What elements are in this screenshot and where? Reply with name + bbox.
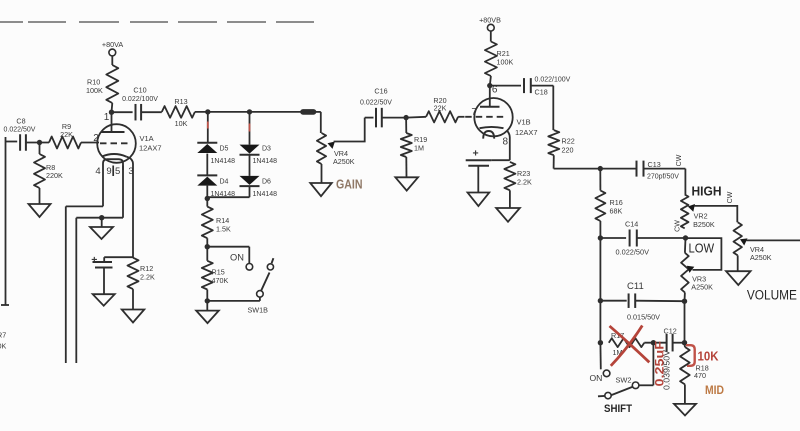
- wire supply to R21: [490, 31, 492, 41]
- svg-text:C14: C14: [625, 220, 638, 229]
- svg-text:12AX7: 12AX7: [139, 144, 162, 153]
- resistor R8: [34, 143, 45, 205]
- ground R23: [496, 208, 520, 222]
- potentiometer VR3: [681, 238, 689, 293]
- diode D3: [240, 145, 260, 155]
- label MID: [705, 385, 724, 397]
- label D5: [211, 146, 236, 166]
- wire R10 to plate node: [111, 103, 114, 112]
- wire branch1 lead: [207, 112, 209, 143]
- wire bus R16 down: [599, 238, 601, 301]
- capacitor C8: [20, 134, 26, 151]
- ground R15: [196, 311, 219, 324]
- node SW2 tap: [651, 340, 656, 345]
- svg-text:1N4148: 1N4148: [253, 158, 278, 165]
- label C10: [133, 86, 146, 95]
- resistor R12: [128, 258, 139, 289]
- label R12: [140, 264, 155, 282]
- ground C9: [93, 294, 115, 306]
- svg-text:CW: CW: [675, 220, 682, 232]
- svg-text:SHIFT: SHIFT: [604, 403, 632, 415]
- ground R19: [395, 177, 418, 190]
- ground heater: [90, 227, 113, 239]
- svg-text:LOW: LOW: [689, 240, 715, 255]
- resistor R18: [680, 343, 690, 385]
- wire wiper to C16: [365, 117, 374, 119]
- wire R16 to C14 node: [599, 221, 601, 238]
- ground R18: [674, 404, 696, 416]
- wiper VR4 volume: [740, 238, 800, 245]
- capacitor C13: [637, 161, 644, 177]
- label C10 value: [122, 96, 158, 103]
- tube V1A cathode: [102, 154, 127, 157]
- svg-text:10K: 10K: [175, 119, 188, 128]
- svg-text:22K: 22K: [60, 130, 73, 139]
- label D3: [253, 146, 278, 166]
- wire R14 to R15: [206, 238, 208, 261]
- svg-text:0.015/50V: 0.015/50V: [627, 315, 660, 322]
- power +80VA: [102, 40, 123, 56]
- svg-text:A250K: A250K: [691, 282, 713, 291]
- wire C8 to R9: [26, 142, 49, 144]
- wire C9 to ground: [103, 268, 105, 295]
- svg-text:C12: C12: [664, 327, 677, 336]
- label R17: [611, 331, 624, 357]
- wire junction to ON contact: [207, 247, 249, 264]
- node tone bus tap: [598, 166, 603, 171]
- capacitor C16: [376, 108, 382, 128]
- wire C11 left: [600, 300, 626, 302]
- wire C11 right: [635, 300, 684, 303]
- wire R20 to V1B grid: [458, 116, 464, 118]
- label pins 4 9 5 3: [95, 166, 133, 177]
- wire R13 to diode bus: [195, 111, 315, 113]
- svg-text:0.022/100V: 0.022/100V: [122, 96, 158, 103]
- wire bus down to R17: [599, 301, 601, 343]
- red mark branch2: [249, 124, 251, 132]
- svg-text:0.022/50V: 0.022/50V: [360, 100, 392, 107]
- svg-text:220K: 220K: [0, 342, 6, 351]
- wire pin4 heater: [66, 206, 103, 363]
- diode D6: [240, 176, 260, 186]
- label mod 0.25uF: [652, 341, 666, 387]
- label pin 2: [93, 133, 99, 144]
- capacitor C18: [524, 78, 531, 93]
- label GAIN: [336, 178, 363, 192]
- label R18: [694, 364, 709, 381]
- ground VR4 gain: [310, 183, 332, 196]
- tube V1A envelope: [97, 124, 136, 163]
- node heater ground: [99, 215, 104, 220]
- node diode branch 2: [247, 109, 252, 114]
- svg-text:C10: C10: [133, 86, 146, 95]
- ground R12: [122, 310, 145, 323]
- switch SW2 lever: [598, 387, 633, 399]
- node R18 top: [682, 340, 687, 345]
- wire pin8 down: [507, 130, 510, 160]
- red mark branch1: [207, 122, 209, 129]
- node R15 bottom: [205, 298, 210, 303]
- svg-text:220K: 220K: [46, 171, 63, 180]
- label VR3: [691, 275, 713, 292]
- svg-text:1: 1: [104, 112, 110, 123]
- label pin 8: [503, 137, 509, 148]
- label LOW: [689, 240, 715, 255]
- label C8: [16, 117, 25, 126]
- wire R15 to ground: [206, 290, 208, 311]
- svg-text:V1A: V1A: [140, 134, 154, 143]
- capacitor C9 plus: [91, 254, 97, 266]
- label pin 6: [492, 85, 498, 96]
- svg-text:0.022/100V: 0.022/100V: [535, 77, 571, 84]
- wire VR3 bus to R18 node: [684, 301, 686, 343]
- capacitor C11: [629, 293, 636, 308]
- wire pin5 heater: [76, 218, 123, 363]
- label R23: [517, 169, 532, 187]
- tube V1B envelope: [474, 98, 512, 136]
- svg-text:0.039/50V: 0.039/50V: [663, 349, 672, 390]
- svg-text:R22: R22: [562, 137, 575, 146]
- label C18: [535, 88, 548, 97]
- red X over R17: [610, 326, 650, 366]
- resistor R16: [595, 169, 605, 221]
- label C11: [627, 281, 644, 292]
- svg-text:9: 9: [106, 166, 111, 177]
- label VR4 volume: [750, 245, 772, 262]
- wire C18 to R22: [531, 86, 554, 131]
- node R17 left: [598, 340, 603, 345]
- svg-text:D5: D5: [220, 146, 229, 153]
- node diode bottom: [205, 196, 210, 201]
- svg-text:VOLUME: VOLUME: [747, 288, 797, 303]
- label R21: [497, 49, 514, 67]
- svg-text:R13: R13: [174, 97, 187, 106]
- resistor R13: [162, 106, 195, 118]
- label C12: [664, 327, 677, 336]
- svg-text:1N4148: 1N4148: [211, 158, 236, 165]
- capacitor C10: [136, 104, 142, 121]
- ground C22: [468, 193, 490, 207]
- node C11 right: [682, 299, 687, 304]
- wire R9 to V1A grid: [81, 142, 99, 144]
- svg-text:SW2: SW2: [616, 376, 632, 385]
- resistor R19: [401, 118, 412, 157]
- resistor R10: [106, 65, 118, 103]
- resistor R14: [202, 207, 213, 239]
- label SHIFT: [604, 403, 632, 415]
- wire to R14: [206, 197, 208, 206]
- wiper VR2: [688, 204, 738, 222]
- label C12 value rotated: [663, 349, 672, 390]
- svg-text:2.2K: 2.2K: [517, 178, 532, 187]
- red bracket 10K: [686, 345, 695, 366]
- svg-text:0.022/50V: 0.022/50V: [616, 250, 650, 257]
- wire node to C10: [112, 111, 133, 113]
- svg-text:1M: 1M: [414, 144, 424, 153]
- label C16: [374, 87, 387, 96]
- svg-text:+80VB: +80VB: [479, 16, 501, 25]
- node input wire: [1, 137, 17, 305]
- wire R19 to ground: [405, 157, 407, 177]
- capacitor C22 plus: [473, 148, 479, 160]
- tube V1A plate: [101, 112, 125, 132]
- label CW treble bottom: [675, 220, 682, 232]
- wire bead to VR4 gain: [314, 112, 321, 133]
- switch SW2 ON contact: [603, 370, 610, 377]
- wire C12 to R18 node: [673, 342, 685, 344]
- ground R8: [29, 204, 51, 217]
- wire R21 to plate node: [490, 76, 491, 86]
- svg-text:8: 8: [503, 137, 509, 148]
- label C11 value: [627, 315, 660, 322]
- svg-text:22K: 22K: [434, 104, 447, 113]
- svg-text:CW: CW: [676, 154, 683, 166]
- label CW volume riser: [727, 191, 734, 203]
- node C14 tap: [598, 235, 603, 240]
- wire supply to R10: [111, 56, 113, 65]
- tube V1B plate: [480, 86, 500, 107]
- wire VR4 gain to ground: [321, 164, 323, 183]
- tube V1B grid: [465, 116, 506, 118]
- label R14: [216, 216, 231, 234]
- node diode branch 1: [205, 109, 210, 114]
- node plate V1B: [487, 83, 492, 88]
- label C18 value: [535, 77, 571, 84]
- svg-text:+: +: [473, 148, 479, 160]
- node VR2 bottom: [683, 235, 688, 240]
- wiper VR3 loop: [686, 238, 722, 273]
- svg-text:D6: D6: [262, 179, 271, 186]
- switch SW2 common: [632, 382, 639, 389]
- label VR2: [693, 212, 715, 230]
- diode D4: [197, 175, 217, 185]
- wire C14 right: [637, 237, 686, 239]
- label CW treble top: [676, 154, 683, 166]
- resistor R23: [504, 162, 515, 190]
- svg-text:68K: 68K: [610, 207, 623, 216]
- capacitor C9 bypass: [93, 257, 134, 267]
- wiper VR4 gain: [328, 118, 365, 149]
- svg-text:+80VA: +80VA: [102, 40, 123, 49]
- diode D5: [197, 143, 217, 153]
- label mod 10K: [698, 349, 720, 364]
- power +80VB: [479, 16, 501, 32]
- svg-text:C18: C18: [535, 88, 548, 97]
- label R7 clipped: [0, 331, 6, 351]
- svg-text:10K: 10K: [698, 349, 720, 364]
- svg-text:1N4148: 1N4148: [253, 191, 278, 198]
- svg-text:MID: MID: [705, 385, 724, 397]
- label C16 value: [360, 100, 392, 107]
- resistor R9: [49, 137, 81, 149]
- svg-text:A250K: A250K: [750, 253, 772, 262]
- wire D3 to D6: [249, 155, 251, 176]
- wire SW2 drop: [639, 343, 654, 386]
- wire bus to SW2 ON: [599, 343, 601, 370]
- pin 5 tick: [122, 166, 124, 171]
- ground VR4 volume: [726, 271, 751, 285]
- wire C13 to high pot: [644, 169, 686, 195]
- capacitor C12: [667, 334, 673, 352]
- resistor R22: [548, 130, 559, 155]
- label D6: [253, 179, 278, 199]
- wire VR4 to ground: [737, 255, 739, 271]
- resistor R15: [202, 261, 213, 290]
- wire to SW1B common: [207, 297, 260, 301]
- node plate V1A: [109, 110, 114, 115]
- svg-text:100K: 100K: [497, 58, 514, 67]
- wire heater ground stub: [101, 218, 103, 227]
- switch SW1B lever: [261, 258, 274, 291]
- wire dashed boundary line: [0, 21, 314, 23]
- pin 9 stub: [112, 166, 114, 177]
- label HIGH: [692, 184, 722, 198]
- svg-text:12AX7: 12AX7: [515, 128, 538, 137]
- capacitor C14: [630, 230, 637, 247]
- svg-text:0.022/50V: 0.022/50V: [4, 127, 36, 134]
- svg-text:C11: C11: [627, 281, 644, 292]
- wire R17 to C12: [644, 342, 666, 344]
- switch SW1B contact: [246, 264, 253, 271]
- label SW2: [616, 376, 632, 385]
- wire diode bottoms: [207, 185, 249, 198]
- svg-text:HIGH: HIGH: [692, 184, 722, 198]
- potentiometer VR2: [681, 195, 689, 229]
- wire thick bead: [303, 109, 314, 115]
- wire C10 to R13: [141, 111, 162, 113]
- resistor R17: [609, 338, 645, 347]
- wire pin3 cathode: [126, 157, 133, 258]
- svg-text:1.5K: 1.5K: [216, 225, 231, 234]
- potentiometer VR4 volume: [734, 222, 742, 255]
- label R15: [212, 268, 229, 286]
- label R16: [610, 198, 623, 216]
- label R8: [46, 163, 63, 180]
- label ON SW2: [590, 373, 603, 383]
- resistor R21: [485, 42, 497, 77]
- label R19: [414, 135, 427, 153]
- label pin 7: [471, 107, 477, 118]
- svg-text:D4: D4: [220, 179, 229, 186]
- label VR4 gain: [333, 149, 355, 166]
- capacitor C22 bypass: [466, 160, 510, 166]
- node C11 tap: [598, 298, 603, 303]
- svg-text:470: 470: [694, 371, 706, 380]
- label C13: [647, 160, 679, 181]
- svg-text:D3: D3: [262, 146, 271, 153]
- svg-text:B250K: B250K: [693, 220, 715, 229]
- label R22: [562, 137, 575, 155]
- node R14 R15 junction: [205, 244, 210, 249]
- label V1B: [515, 118, 538, 138]
- label V1A: [139, 134, 162, 153]
- svg-text:CW: CW: [727, 191, 734, 203]
- svg-text:270pf/50V: 270pf/50V: [647, 174, 679, 181]
- svg-text:2.2K: 2.2K: [140, 273, 155, 282]
- wire C18 from plate node: [490, 85, 521, 87]
- wire D5 to D4: [206, 154, 208, 176]
- svg-text:C16: C16: [374, 87, 387, 96]
- wire C16 to node: [382, 117, 406, 119]
- svg-text:ON: ON: [230, 253, 244, 263]
- tube V1B heater dome: [483, 131, 494, 139]
- svg-text:4: 4: [95, 166, 100, 177]
- label R9: [60, 122, 73, 139]
- wire R23 to ground: [509, 190, 511, 208]
- label ON SW1B: [230, 253, 244, 263]
- wire branch2 lead: [249, 112, 251, 145]
- tube V1A grid: [100, 142, 130, 144]
- svg-text:100K: 100K: [86, 86, 103, 95]
- wire R18 to ground: [684, 384, 686, 404]
- node R8 junction: [37, 140, 42, 145]
- svg-text:220: 220: [562, 146, 574, 155]
- wire R12 to ground: [132, 289, 134, 309]
- svg-text:5: 5: [115, 166, 120, 177]
- svg-text:GAIN: GAIN: [336, 178, 363, 192]
- svg-text:A250K: A250K: [333, 157, 355, 166]
- wire VR3 to C11 node: [684, 293, 686, 302]
- switch SW1B common: [257, 291, 264, 298]
- label pin 1: [104, 112, 110, 123]
- label R10: [86, 78, 103, 96]
- label R13: [174, 97, 187, 128]
- svg-text:2: 2: [93, 133, 99, 144]
- svg-text:ON: ON: [590, 373, 603, 383]
- tube V1B cathode: [480, 127, 504, 128]
- wire C22 to ground: [477, 166, 479, 193]
- label R20: [433, 96, 446, 113]
- svg-text:470K: 470K: [212, 276, 229, 285]
- svg-text:+: +: [91, 254, 97, 266]
- label VOLUME: [747, 288, 797, 303]
- svg-text:SW1B: SW1B: [248, 306, 269, 315]
- svg-text:C13: C13: [648, 160, 661, 169]
- label C8 value: [4, 127, 36, 134]
- wire R22 to tone bus: [554, 155, 636, 168]
- svg-text:7: 7: [471, 107, 477, 118]
- potentiometer VR4 gain: [317, 133, 326, 164]
- svg-text:V1B: V1B: [517, 118, 531, 127]
- node R19 R20: [403, 115, 408, 120]
- tube V1A heater: [103, 159, 123, 218]
- svg-text:R7: R7: [0, 331, 6, 340]
- svg-text:C8: C8: [16, 117, 25, 126]
- label C14: [625, 220, 638, 229]
- label D4: [211, 179, 236, 199]
- label C14 value: [616, 250, 650, 257]
- label SW1B: [248, 306, 269, 315]
- wire C14 left: [600, 237, 626, 239]
- resistor R20: [406, 111, 458, 122]
